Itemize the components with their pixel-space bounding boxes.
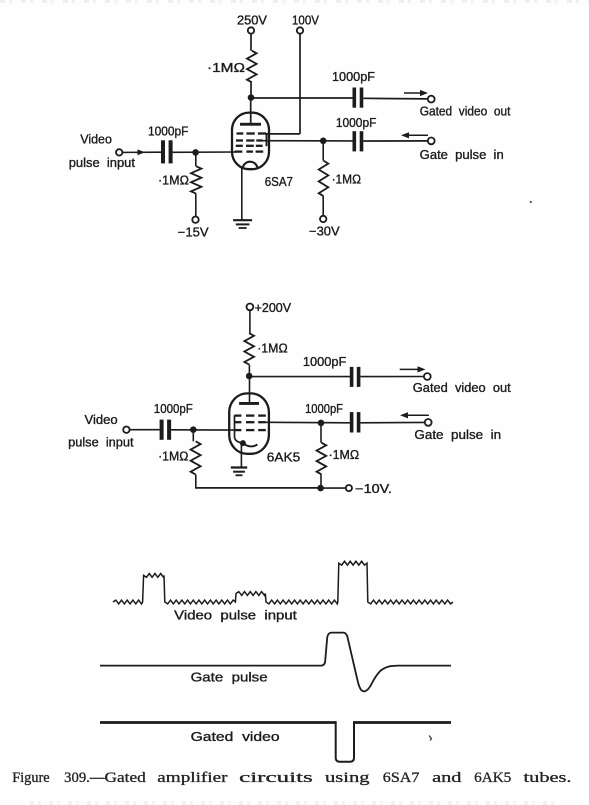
svg-text:·1MΩ: ·1MΩ <box>332 173 361 187</box>
wire R5 to rail node <box>320 474 322 488</box>
waveform: gated video baseline right <box>354 721 452 724</box>
svg-text:pulse input: pulse input <box>69 155 136 170</box>
terminal gated video out 2 <box>424 373 431 380</box>
terminal video pulse input 2 <box>123 427 129 433</box>
capacitor C1 1000pF (video out coupling) <box>353 88 357 108</box>
node input grid junction 2 <box>190 426 197 433</box>
waveform: gated video notch <box>336 721 354 762</box>
resistor R1 .1M ohm (plate load) <box>247 51 257 83</box>
terminal -10V <box>346 485 352 491</box>
U1 cathode arc <box>243 162 258 169</box>
svg-text:250V: 250V <box>237 13 268 27</box>
capacitor C2 1000pF (gate coupling) <box>353 131 357 151</box>
wire C2 to gate terminal <box>363 140 428 142</box>
node gate junction <box>320 138 327 145</box>
arrow gate pulse in (pointing left) <box>407 134 428 136</box>
svg-text:Video: Video <box>80 132 112 147</box>
faint cropped text line (top edge) <box>0 0 589 3</box>
wire bias rail <box>195 487 321 489</box>
svg-text:tubes.: tubes. <box>524 770 572 786</box>
terminal 250V <box>248 27 254 33</box>
node plate junction <box>248 94 255 101</box>
U1 screen grid tie (vertical hook) <box>266 133 268 146</box>
apostrophe mark <box>429 736 432 741</box>
wire plate node to tube plate <box>249 376 251 404</box>
wire plate node to C1 <box>251 97 353 99</box>
U1 plate (anode bar) <box>240 123 261 126</box>
capacitor C6 1000pF (input coupling) <box>160 420 164 440</box>
svg-text:·1MΩ: ·1MΩ <box>207 61 245 75</box>
node bias rail junction <box>317 485 324 492</box>
waveform: gated video baseline left <box>100 721 336 724</box>
resistor R6 .1M ohm (grid leak) <box>192 433 194 442</box>
node input grid junction <box>192 149 199 156</box>
wire cathode to ground (6AK5) <box>240 443 242 467</box>
node gate junction 2 <box>318 420 325 427</box>
svg-text:−10V.: −10V. <box>355 482 392 496</box>
arrow gate pulse in 2 (pointing left) <box>406 414 429 416</box>
speck <box>530 201 532 203</box>
wire rail node to -10V terminal <box>324 487 346 489</box>
arrow gated video out (pointing right) <box>404 92 422 94</box>
svg-text:Gated video: Gated video <box>191 729 280 744</box>
U2 plate (anode bar) <box>239 402 259 405</box>
svg-text:6SA7: 6SA7 <box>265 174 293 189</box>
terminal +200V <box>247 304 254 311</box>
terminal -30V <box>320 216 326 222</box>
waveform: video pulse input <box>113 561 453 604</box>
wire cathode to ground <box>241 169 243 221</box>
resistor R4 .1M ohm (plate load) <box>244 333 254 364</box>
terminal video pulse input <box>116 149 122 155</box>
svg-text:circuits: circuits <box>239 770 313 786</box>
tube U1 6SA7 envelope <box>232 113 269 170</box>
capacitor C5 1000pF (gate coupling) <box>350 412 354 432</box>
node plate junction (6AK5) <box>246 373 253 380</box>
ground (cathode of 6SA7) <box>233 219 252 221</box>
faint cropped text line (bottom edge) <box>30 801 560 805</box>
wire input terminal to C6 <box>130 429 160 431</box>
arrow gated video out 2 (pointing right) <box>400 368 420 370</box>
svg-text:6AK5: 6AK5 <box>267 450 300 465</box>
capacitor C4 1000pF (video out coupling) <box>350 367 354 387</box>
svg-text:using: using <box>325 770 370 786</box>
svg-text:and: and <box>432 770 462 786</box>
svg-text:Figure: Figure <box>12 770 50 786</box>
ground (cathode of 6AK5) <box>231 466 247 468</box>
svg-text:−15V: −15V <box>178 226 210 240</box>
svg-text:Gated: Gated <box>105 770 147 786</box>
U2 cathode junction dot <box>240 440 246 446</box>
U1 grid row 4 (signal grid) <box>235 150 243 152</box>
wire C6 to grid node 2 <box>171 429 237 431</box>
svg-text:1000pF: 1000pF <box>154 402 193 416</box>
terminal 100V <box>297 27 303 33</box>
wire 100V to screen grids <box>267 133 301 135</box>
wire 250V to R1 <box>250 34 252 51</box>
terminal gated video out <box>428 96 435 103</box>
svg-text:Video pulse input: Video pulse input <box>174 608 297 623</box>
wire screen grid to gate node 2 <box>266 421 350 424</box>
svg-text:−30V: −30V <box>309 224 340 238</box>
wire plate node to tube plate <box>250 98 252 124</box>
svg-text:1000pF: 1000pF <box>305 402 343 416</box>
wire C5 to gate terminal 2 <box>361 421 426 423</box>
terminal gate pulse in <box>428 138 435 145</box>
wire C4 to output terminal <box>361 376 425 378</box>
svg-text:1000pF: 1000pF <box>332 70 375 84</box>
svg-text:309.—: 309.— <box>64 770 105 786</box>
U2 grid row 1 (suppressor) <box>235 414 242 416</box>
svg-text:·1MΩ: ·1MΩ <box>329 448 360 462</box>
svg-text:amplifier: amplifier <box>157 770 227 786</box>
terminal gate pulse in 2 <box>425 419 432 426</box>
svg-text:Gate pulse in: Gate pulse in <box>420 147 504 162</box>
wire grid2 to gate node <box>263 140 353 142</box>
svg-text:+200V: +200V <box>255 301 292 315</box>
svg-text:100V: 100V <box>292 13 320 27</box>
tube U2 6AK5 envelope <box>229 393 269 453</box>
capacitor C3 1000pF (input coupling) <box>161 140 165 163</box>
U1 grid row 3 <box>236 145 243 147</box>
wire plate node to C4 <box>249 376 350 378</box>
U2 grid row 2 (screen) <box>235 421 242 423</box>
svg-text:Gated video out: Gated video out <box>420 104 511 119</box>
wire input terminal to C3 with arrowhead <box>122 151 161 153</box>
svg-text:1000pF: 1000pF <box>303 355 347 369</box>
wire R1 to plate node <box>250 82 252 97</box>
U2 grid row 3 (control) <box>235 429 242 431</box>
U1 grid row 2 <box>236 139 243 141</box>
svg-text:·1MΩ: ·1MΩ <box>158 449 188 463</box>
svg-text:6SA7: 6SA7 <box>383 770 420 786</box>
svg-text:pulse input: pulse input <box>68 434 134 449</box>
wire +200V to R4 <box>249 310 251 333</box>
wire R2 to -30V terminal <box>322 196 324 216</box>
svg-text:Gate pulse: Gate pulse <box>191 669 268 684</box>
resistor R2 .1M ohm (gate return) <box>322 144 324 161</box>
U1 grid row 1 <box>237 132 244 134</box>
svg-text:Video: Video <box>85 412 118 427</box>
waveform: gate pulse <box>100 633 451 692</box>
svg-text:1000pF: 1000pF <box>336 116 377 130</box>
wire C3 to grid node <box>173 151 237 153</box>
svg-text:Gate pulse in: Gate pulse in <box>414 427 501 442</box>
U2 suppressor-to-cathode tie <box>234 415 236 438</box>
resistor R5 .1M ohm (gate return) <box>320 426 322 443</box>
terminal -15V <box>192 217 198 223</box>
svg-text:·1MΩ: ·1MΩ <box>257 342 288 356</box>
svg-text:·1MΩ: ·1MΩ <box>158 174 189 188</box>
wire R3 to -15V terminal <box>195 194 197 217</box>
wire 100V down <box>299 34 301 134</box>
svg-text:6AK5: 6AK5 <box>474 770 511 786</box>
resistor R3 .1M ohm (grid leak) <box>195 155 197 166</box>
svg-text:Gated video out: Gated video out <box>413 380 511 395</box>
svg-text:1000pF: 1000pF <box>148 125 189 139</box>
wire R6 to bias rail <box>195 475 197 488</box>
wire R4 to plate node <box>248 365 250 376</box>
wire C1 to output terminal <box>363 97 428 100</box>
U2 cathode hook <box>243 443 258 446</box>
